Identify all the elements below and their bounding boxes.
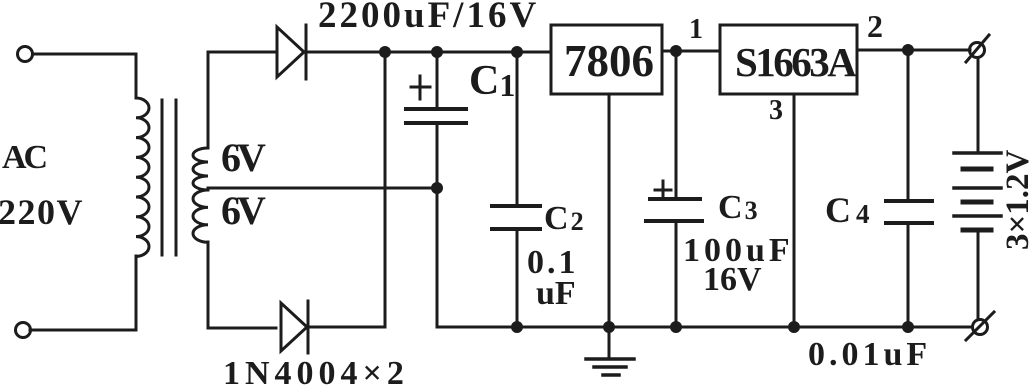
transformer T1 secondary upper winding 6V (193, 52, 208, 190)
svg-text:6V: 6V (221, 188, 266, 233)
node 1 (672, 47, 681, 56)
wire (385, 51, 437, 54)
svg-text:3×1.2V: 3×1.2V (1000, 149, 1029, 250)
node (605, 323, 614, 332)
node (904, 46, 913, 55)
terminal J1 (AC input top) (18, 47, 33, 62)
C1 plus polarity mark (411, 76, 430, 99)
U2 pin 3 lead (793, 94, 796, 327)
svg-text:C4: C4 (825, 190, 870, 230)
wire (center tap to ground corner) (208, 187, 437, 190)
svg-text:220V: 220V (0, 192, 84, 232)
svg-text:C3: C3 (718, 189, 758, 226)
diode D2 (bottom 1N4004) (281, 301, 308, 353)
capacitor C1 2200uF/16V (406, 52, 466, 188)
svg-text:C2: C2 (544, 200, 584, 237)
U1 ground pin (608, 94, 611, 359)
node (center tap joins C1 negative) (433, 184, 442, 193)
wire (662, 50, 720, 53)
wire (33, 53, 136, 56)
terminal J4 (output -, circle with slash) (966, 312, 994, 340)
svg-text:AC: AC (2, 139, 46, 176)
svg-text:7806: 7806 (564, 36, 654, 86)
wire (857, 49, 970, 52)
ground (586, 359, 634, 375)
transformer T1 primary winding (136, 54, 149, 330)
svg-text:uF: uF (536, 275, 576, 312)
node (513, 48, 522, 57)
node (513, 323, 522, 332)
capacitor C3 100uF/16V (646, 51, 702, 327)
wire (305, 51, 385, 54)
capacitor C2 0.1uF (492, 52, 540, 327)
transformer T1 secondary lower winding 6V (193, 190, 276, 328)
terminal J3 (output +, circle with slash) (966, 35, 989, 62)
terminal J2 (AC input bottom) (16, 323, 31, 338)
svg-text:1N4004×2: 1N4004×2 (223, 355, 409, 385)
C3 plus polarity mark (655, 181, 671, 198)
IC U2 S1663A (720, 25, 857, 94)
svg-text:2: 2 (867, 8, 883, 44)
node (rectifier output junction) (381, 48, 390, 57)
node (790, 323, 799, 332)
wire (bottom diode to riser) (307, 52, 385, 327)
node (433, 48, 442, 57)
svg-text:1: 1 (689, 14, 703, 45)
svg-text:C1: C1 (469, 58, 515, 104)
node (904, 323, 913, 332)
transformer T1 core (162, 100, 176, 255)
svg-text:3: 3 (769, 95, 783, 126)
svg-text:S1663A: S1663A (735, 39, 857, 85)
diode D1 (top 1N4004) (208, 25, 306, 79)
svg-text:16V: 16V (703, 261, 762, 298)
capacitor C4 0.01uF (886, 50, 932, 327)
wire (517, 51, 551, 54)
svg-text:6V: 6V (221, 135, 266, 180)
wire (ground rail down and right) (437, 188, 972, 327)
battery BT1 3x1.2V (954, 58, 1001, 319)
wire (30, 329, 136, 332)
wire (437, 51, 517, 54)
regulator U1 7806 (551, 25, 662, 94)
node (672, 323, 681, 332)
svg-text:2200uF/16V: 2200uF/16V (318, 0, 539, 36)
svg-text:0.01uF: 0.01uF (808, 336, 931, 373)
